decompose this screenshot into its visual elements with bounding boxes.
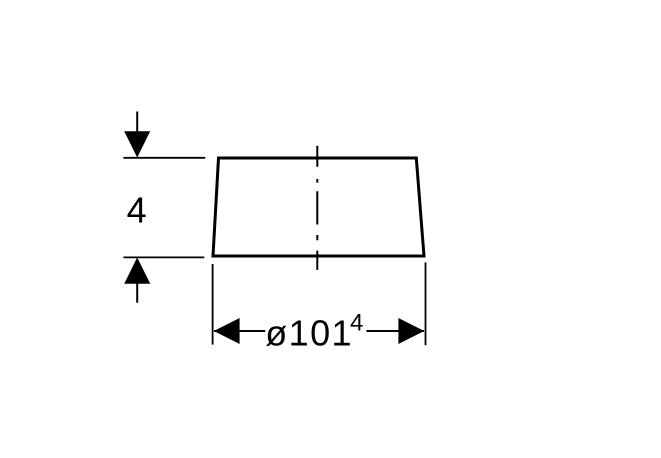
svg-text:4: 4 <box>127 190 147 231</box>
centerline (dash-dot axis) <box>316 146 318 270</box>
extension line bottom (height dim) <box>123 256 204 258</box>
arrowhead pointing up (height dim) <box>124 257 150 283</box>
extension line right (diameter dim) <box>425 262 427 345</box>
arrowhead pointing down (height dim) <box>124 131 150 157</box>
dimension tail above top arrow <box>136 112 138 134</box>
extension line top (height dim) <box>123 157 205 159</box>
dimension line left segment <box>214 330 265 332</box>
arrowhead pointing right (diameter dim) <box>398 318 424 344</box>
svg-text:ø101: ø101 <box>265 313 353 354</box>
extension line left (diameter dim) <box>212 264 214 345</box>
svg-text:4: 4 <box>350 310 363 337</box>
arrowhead pointing left (diameter dim) <box>214 318 240 344</box>
dimension tail below bottom arrow <box>136 283 138 303</box>
part outline (trapezoid body) <box>213 158 424 256</box>
dimension line right segment <box>367 330 425 332</box>
